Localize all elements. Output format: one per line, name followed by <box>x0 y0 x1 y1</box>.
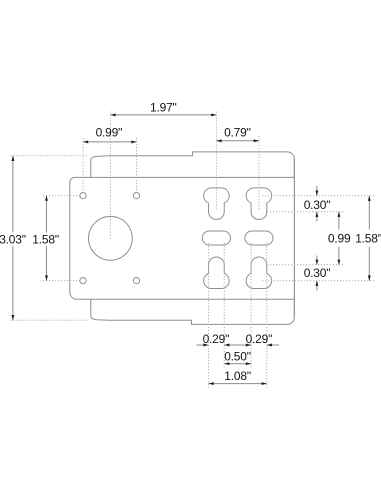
extension line panel top <box>11 155 88 157</box>
extension line holes top row left <box>43 195 80 197</box>
svg-text:0.99: 0.99 <box>328 231 351 245</box>
extension line panel bottom <box>11 319 88 321</box>
dimension 0.99 top line <box>83 141 137 143</box>
centerline hole col left <box>82 138 84 192</box>
dimension 1.08 line <box>209 383 267 385</box>
svg-text:1.08": 1.08" <box>224 369 251 383</box>
dimension 1.97 line <box>110 114 216 116</box>
outer back panel outline <box>91 152 294 325</box>
small hole top-left <box>80 193 86 199</box>
small hole top-right <box>133 193 139 199</box>
svg-text:0.30": 0.30" <box>304 266 331 280</box>
centerline hole col right <box>136 138 138 192</box>
small hole bottom-right <box>133 278 139 284</box>
svg-text:1.58": 1.58" <box>32 232 59 246</box>
svg-text:0.50": 0.50" <box>224 349 251 363</box>
svg-text:1.97": 1.97" <box>150 101 177 115</box>
svg-text:0.79": 0.79" <box>224 126 251 140</box>
dimension 0.79 line <box>216 140 259 142</box>
dimension 0.30 bottom-right arrows <box>316 256 318 265</box>
svg-text:3.03": 3.03" <box>0 232 26 246</box>
extension line row A right <box>262 195 375 197</box>
svg-text:1.58": 1.58" <box>355 231 381 245</box>
dimension 0.30 top-right arrows <box>316 186 318 196</box>
dimension 3.03 line <box>12 156 14 233</box>
dimension 1.58 left line <box>46 196 48 233</box>
front plate <box>70 177 294 299</box>
dimension 1.58 right line <box>368 196 370 230</box>
keyhole slot top col2 <box>246 188 272 220</box>
centerline slot col2 <box>258 136 260 209</box>
extension line row E right <box>262 280 375 282</box>
keyhole slot top col1 <box>204 188 230 220</box>
extension line slot edge 3 <box>250 243 252 368</box>
dimension 0.99 right line <box>338 212 340 230</box>
outer panel right edge redraw <box>293 159 295 318</box>
keyhole slot bottom col2 <box>246 257 272 289</box>
centerline big circle <box>109 112 111 239</box>
extension line slot edge 4 <box>266 243 268 388</box>
dimension 0.50 line <box>224 363 251 365</box>
extension line slot edge 2 <box>223 243 225 368</box>
svg-text:0.29": 0.29" <box>203 332 230 346</box>
extension line holes bottom row left <box>43 280 80 282</box>
extension line slot edge 1 <box>208 243 210 388</box>
extension line row D right <box>267 264 344 266</box>
small hole bottom-left <box>80 278 86 284</box>
keyhole slot bottom col1 <box>204 257 230 289</box>
big circular hole <box>89 216 133 260</box>
svg-text:0.99": 0.99" <box>96 126 123 140</box>
svg-text:0.29": 0.29" <box>246 332 273 346</box>
extension line row B right <box>267 211 344 213</box>
svg-text:0.30": 0.30" <box>304 198 331 212</box>
oval slot col1 <box>202 231 230 245</box>
oval slot col2 <box>245 231 273 245</box>
dimension 0.29 left arrows <box>197 344 209 346</box>
centerline slot col1 <box>215 112 217 210</box>
